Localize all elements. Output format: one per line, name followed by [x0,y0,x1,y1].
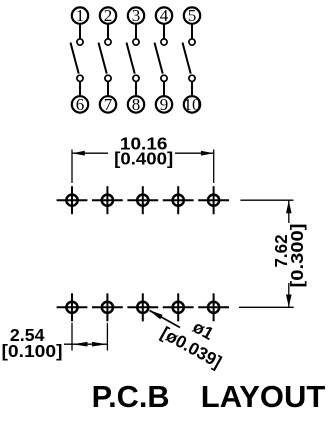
wire lower contact to pin 10 [191,82,193,96]
PCB top-row pad hole T2 [92,186,123,214]
switch S1 upper contact [77,39,83,45]
pin 4 terminal circle [156,7,172,23]
switch S3 upper contact [133,39,139,45]
wire pin 2 to upper contact [107,24,109,38]
svg-text:6: 6 [76,95,85,114]
svg-text:LAYOUT: LAYOUT [201,379,326,414]
dimension 10.16/[0.400]: left extension line [71,150,73,184]
PCB bottom-row pad hole B3 [127,293,158,321]
svg-text:[0.100]: [0.100] [2,341,63,361]
dimension 2.54/[0.100]: left extension line [71,323,73,351]
hole diameter leader arrowhead [149,310,163,319]
switch S2 [99,6,117,114]
switch S3 lower contact [133,75,139,81]
switch S4 lower contact [161,75,167,81]
wire lower contact to pin 7 [107,82,109,96]
switch S2 upper contact [105,39,111,45]
dimension 10.16/[0.400]: right extension line [213,150,215,184]
dimension 2.54/[0.100]: left arrowhead [72,342,88,347]
pin 7 terminal circle [100,96,116,112]
PCB top-row pad hole T3 [127,186,158,214]
PCB top-row pad hole T5 [198,186,229,214]
svg-text:1: 1 [76,6,85,25]
switch S5 lever (open) [183,43,191,74]
svg-text:[0.400]: [0.400] [114,149,173,169]
switch S5 lower contact [189,75,195,81]
PCB bottom-row pad hole B2 [92,293,123,321]
dimension 10.16/[0.400]: right arrowhead [201,151,214,156]
dimension 2.54/[0.100]: dimension line with left tail [64,343,107,345]
dimension 7.62/[0.300]: top extension line [240,199,293,201]
wire lower contact to pin 8 [135,82,137,96]
wire pin 1 to upper contact [79,24,81,38]
dimension 2.54/[0.100]: right arrowhead [92,342,108,347]
pin 1 terminal circle [72,7,88,23]
svg-text:9: 9 [160,95,169,114]
dimension 7.62/[0.300]: up arrowhead [286,201,292,214]
switch S5 [183,6,201,114]
svg-text:8: 8 [132,95,141,114]
svg-text:4: 4 [160,6,169,25]
switch S4 lever (open) [155,43,163,74]
switch S4 upper contact [161,39,167,45]
dimension 2.54/[0.100]: right extension line [106,323,108,351]
dimension 7.62/[0.300]: down arrowhead [286,295,292,308]
dimension 7.62/[0.300]: dimension line bottom segment [288,283,290,307]
switch S5 upper contact [189,39,195,45]
pin 10 terminal circle [184,96,200,112]
svg-text:7: 7 [104,95,113,114]
switch S1 [71,6,89,114]
switch S3 [127,6,145,114]
PCB bottom-row pad hole B1 [57,293,88,321]
hole diameter leader line [150,311,180,328]
svg-text:P.C.B: P.C.B [92,379,170,414]
svg-text:3: 3 [132,6,141,25]
wire pin 5 to upper contact [191,24,193,38]
dimension 10.16/[0.400]: dimension line left segment [72,152,108,154]
wire pin 3 to upper contact [135,24,137,38]
PCB bottom-row pad hole B4 [163,293,194,321]
pin 6 terminal circle [72,96,88,112]
PCB top-row pad hole T4 [163,186,194,214]
svg-text:10: 10 [184,95,201,114]
wire lower contact to pin 6 [79,82,81,96]
pin 3 terminal circle [128,7,144,23]
svg-text:5: 5 [188,6,197,25]
switch S3 lever (open) [127,43,135,74]
pin 9 terminal circle [156,96,172,112]
switch S2 lever (open) [99,43,107,74]
svg-text:[0.300]: [0.300] [287,224,307,288]
dimension 7.62/[0.300]: dimension line top segment [288,201,290,224]
PCB bottom-row pad hole B5 [198,293,229,321]
dimension 7.62/[0.300]: bottom extension line [239,306,294,308]
wire pin 4 to upper contact [163,24,165,38]
pin 2 terminal circle [100,7,116,23]
dimension 10.16/[0.400]: left arrowhead [72,151,85,156]
wire lower contact to pin 9 [163,82,165,96]
pin 5 terminal circle [184,7,200,23]
PCB top-row pad hole T1 [57,186,88,214]
switch S1 lower contact [77,75,83,81]
switch S2 lower contact [105,75,111,81]
switch S1 lever (open) [71,43,79,74]
pin 8 terminal circle [128,96,144,112]
switch S4 [155,6,173,114]
dimension 10.16/[0.400]: dimension line right segment [175,152,214,154]
svg-text:2: 2 [104,6,113,25]
